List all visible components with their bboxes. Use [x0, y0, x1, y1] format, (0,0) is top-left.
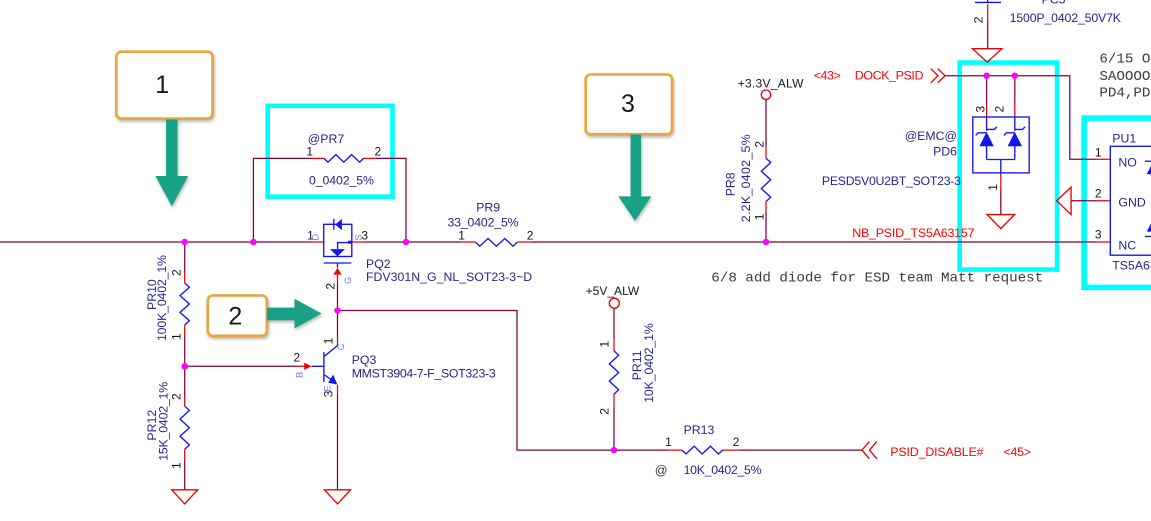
svg-text:@: @ — [655, 463, 668, 477]
junction node base/PR10/PR12 — [181, 363, 188, 370]
diode PD6 left lead — [986, 117, 988, 160]
svg-text:0_0402_5%: 0_0402_5% — [309, 174, 374, 188]
svg-text:1: 1 — [665, 435, 672, 449]
wire: PQ3 emitter to ground — [337, 393, 339, 489]
svg-text:2: 2 — [1095, 186, 1102, 200]
svg-text:DOCK_PSID: DOCK_PSID — [855, 68, 924, 82]
transistor PQ3 base lead — [312, 365, 324, 367]
wire: gate junction to PQ3 collector — [337, 311, 339, 339]
resistor PR7 — [324, 155, 364, 163]
junction node PD6 pin2 — [1012, 72, 1019, 79]
diode PD6 common lead — [987, 160, 1015, 174]
svg-text:2: 2 — [170, 269, 184, 276]
svg-text:1: 1 — [458, 228, 465, 242]
svg-text:1: 1 — [306, 145, 313, 159]
svg-text:1: 1 — [170, 462, 184, 469]
svg-text:1: 1 — [155, 71, 169, 99]
svg-text:3: 3 — [973, 106, 987, 113]
svg-text:PU1: PU1 — [1112, 131, 1136, 145]
svg-text:2: 2 — [597, 408, 611, 415]
svg-text:PESD5V0U2BT_SOT23-3: PESD5V0U2BT_SOT23-3 — [822, 174, 961, 188]
ground under PD6 — [987, 215, 1015, 229]
transistor PQ2 body — [324, 224, 352, 256]
wire: PQ2 gate down to junction — [337, 284, 339, 311]
junction node PR7 right leg — [403, 239, 410, 246]
transistor PQ2 body diode bar — [333, 219, 335, 230]
svg-text:2.2K_0402_5%: 2.2K_0402_5% — [739, 134, 753, 222]
resistor PR13 — [682, 446, 723, 454]
IC PU1 switch glyph bottom — [1145, 236, 1151, 238]
svg-text:1500P_0402_50V7K: 1500P_0402_50V7K — [1010, 11, 1122, 25]
svg-text:G: G — [343, 277, 354, 284]
transistor PQ2 gate arrow — [337, 263, 339, 268]
wire: PD6 pin1 to ground — [1000, 187, 1002, 214]
pin stubs PU1 — [1096, 159, 1110, 242]
svg-text:PD6: PD6 — [933, 145, 957, 159]
callout arrow 3 — [618, 135, 651, 221]
svg-text:NB_PSID_TS5A63157: NB_PSID_TS5A63157 — [852, 226, 974, 240]
wire: PR13 left — [614, 449, 669, 451]
wire: PC5 cap to ground — [987, 22, 989, 49]
svg-text:<43>: <43> — [814, 68, 841, 82]
wire: DOCK_PSID net to PU1 pin1 — [945, 76, 1096, 160]
wire: base wire to PQ3 — [185, 365, 299, 367]
svg-text:1: 1 — [752, 213, 766, 220]
svg-text:FDV301N_G_NL_SOT23-3~D: FDV301N_G_NL_SOT23-3~D — [366, 270, 532, 284]
svg-text:PQ3: PQ3 — [352, 353, 377, 367]
svg-text:100K_0402_1%: 100K_0402_1% — [155, 255, 169, 341]
wire: +3.3V to PR8 — [765, 99, 767, 147]
junction node PQ2 gate — [334, 307, 341, 314]
ground under PQ3 — [325, 490, 351, 504]
svg-text:2: 2 — [733, 435, 740, 449]
wire: PR13 right to PSID_DISABLE# port — [740, 449, 863, 451]
IC PU1 switch glyph top — [1145, 160, 1151, 162]
wire: PU1 pin2 from input arrow — [1071, 200, 1096, 202]
transistor PQ3 emitter arrow — [328, 375, 337, 385]
PU1 pin2 input arrow — [1057, 187, 1072, 214]
ground under PC5 — [973, 49, 1002, 63]
resistor PR8 — [761, 158, 770, 201]
wire: PR7 bypass loop — [253, 158, 406, 242]
svg-text:PD4,PD5: PD4,PD5 — [1099, 86, 1151, 102]
pin stubs PQ3 — [299, 339, 338, 394]
highlight box around PD6 — [960, 63, 1057, 270]
svg-text:E: E — [322, 385, 333, 391]
pin stubs PQ2 drain/source — [311, 241, 365, 243]
junction node PR11 bottom — [611, 447, 618, 454]
svg-text:SAOOOOO: SAOOOOO — [1099, 69, 1151, 85]
pin stub PQ2 gate — [337, 275, 339, 284]
svg-text:2: 2 — [228, 302, 242, 330]
callout box 3 — [586, 75, 672, 135]
svg-text:3: 3 — [1095, 227, 1102, 241]
power port +5V_ALW circle — [609, 298, 619, 308]
IC PU1 outline box — [1110, 146, 1151, 255]
svg-text:PSID_DISABLE#: PSID_DISABLE# — [890, 445, 983, 459]
svg-text:1: 1 — [986, 184, 1000, 191]
capacitor PC5 lead — [987, 0, 989, 2]
svg-text:MMST3904-7-F_SOT323-3: MMST3904-7-F_SOT323-3 — [352, 366, 496, 380]
wire: PR12 top — [184, 366, 186, 396]
svg-text:15K_0402_1%: 15K_0402_1% — [156, 382, 170, 461]
pin stubs PR10 — [184, 271, 186, 337]
transistor PQ3 collector lead — [325, 344, 338, 356]
svg-text:PR8: PR8 — [724, 172, 738, 196]
svg-text:2: 2 — [170, 393, 184, 400]
svg-text:B: B — [295, 372, 306, 378]
svg-text:2: 2 — [752, 141, 766, 148]
wire: main NB_PSID horizontal net — [0, 241, 1096, 243]
callout arrow 1 — [155, 120, 188, 207]
svg-text:NC: NC — [1118, 239, 1136, 253]
svg-text:1: 1 — [170, 333, 184, 340]
callout box 1 — [116, 52, 212, 119]
diode PD6 left zener bar — [976, 127, 997, 136]
svg-text:10K_0402_5%: 10K_0402_5% — [684, 463, 762, 477]
svg-text:6/15 ON: 6/15 ON — [1099, 52, 1151, 68]
pin stub PC5 — [987, 4, 989, 21]
svg-text:1: 1 — [321, 337, 335, 344]
pin stubs PR8 — [765, 148, 767, 212]
svg-text:TS5A63157: TS5A63157 — [1112, 258, 1151, 272]
wire: PD6 pin2 drop — [1014, 76, 1016, 103]
svg-text:1: 1 — [1095, 146, 1102, 160]
svg-text:S: S — [354, 234, 365, 240]
svg-text:6/8 add diode for ESD team Mat: 6/8 add diode for ESD team Matt request — [711, 271, 1043, 287]
svg-text:33_0402_5%: 33_0402_5% — [448, 215, 519, 229]
svg-text:@EMC@: @EMC@ — [905, 129, 957, 143]
svg-text:PR9: PR9 — [476, 201, 500, 215]
pin stubs PR11 — [613, 339, 615, 406]
svg-text:<45>: <45> — [1004, 445, 1032, 459]
pin stubs PR12 — [184, 396, 186, 459]
transistor PQ3 base bar — [323, 352, 325, 382]
transistor PQ2 gate bar — [324, 262, 352, 264]
callout arrow 2 — [267, 299, 322, 329]
junction node PR7 left leg — [250, 239, 257, 246]
highlight box around PU1 — [1084, 118, 1151, 287]
svg-text:+5V_ALW: +5V_ALW — [586, 284, 640, 298]
wire: +5V to PR11 — [613, 308, 615, 339]
svg-text:PR13: PR13 — [684, 423, 715, 437]
svg-text:+3.3V_ALW: +3.3V_ALW — [738, 77, 804, 91]
transistor PQ2 body diode triangle — [335, 219, 342, 230]
svg-text:GND: GND — [1118, 196, 1145, 210]
transistor PQ3 base input arrow — [304, 363, 311, 370]
svg-text:2: 2 — [971, 16, 985, 23]
transistor PQ2 internal step — [338, 243, 352, 249]
DOCK_PSID port chevron — [931, 69, 945, 83]
power port +3.3V_ALW circle — [761, 90, 770, 99]
svg-text:2: 2 — [375, 145, 382, 159]
diode PD6 outline box — [973, 117, 1029, 173]
svg-text:@PR7: @PR7 — [308, 132, 345, 146]
wire: PD6 pin3 drop — [986, 76, 988, 103]
diode PD6 right zener bar — [1004, 127, 1025, 136]
resistor PR11 — [609, 351, 618, 394]
transistor PQ2 internal arrow — [330, 249, 345, 256]
diode PD6 right lead — [1014, 117, 1016, 160]
pin stubs PR13 — [668, 449, 739, 451]
svg-text:1: 1 — [597, 341, 611, 348]
pin stubs PR9 — [461, 241, 531, 243]
svg-text:2: 2 — [294, 351, 301, 365]
resistor PR9 — [476, 239, 518, 247]
resistor PR10 — [180, 283, 189, 325]
svg-text:2: 2 — [527, 228, 534, 242]
ground under PR12 — [172, 490, 198, 504]
wire: PR12 bottom to ground — [184, 459, 186, 489]
wire: PR8 bottom to main net — [765, 212, 767, 242]
svg-text:2: 2 — [323, 283, 337, 290]
svg-text:2: 2 — [992, 106, 1006, 113]
svg-text:NO: NO — [1118, 156, 1136, 170]
svg-text:D: D — [311, 234, 322, 241]
svg-text:PC5: PC5 — [1042, 0, 1066, 7]
capacitor PC5 bottom plate — [975, 1, 1001, 3]
diode PD6 left triangle — [979, 132, 993, 146]
pin stubs PD6 — [987, 103, 1015, 187]
pin stubs PR7 — [311, 157, 375, 159]
highlight box around PR7 — [268, 106, 393, 197]
junction node on main net at PR10 — [181, 239, 188, 246]
wire: PR10 top branch — [184, 242, 186, 271]
PSID_DISABLE# port chevron — [862, 442, 877, 459]
svg-text:10K_0402_1%: 10K_0402_1% — [642, 323, 656, 403]
wire: PR10 bottom to mid junction — [184, 337, 186, 366]
wire: output net to PR11/PR13 row — [338, 311, 614, 451]
diode PD6 right triangle — [1008, 132, 1022, 146]
svg-text:3: 3 — [621, 90, 635, 118]
svg-text:C: C — [336, 343, 347, 350]
transistor PQ3 emitter lead — [325, 375, 337, 383]
junction node PD6 pin3 — [983, 72, 990, 79]
resistor PR12 — [180, 406, 189, 449]
wire: PR11 bottom to junction — [613, 406, 615, 450]
junction node PR8 bottom — [763, 239, 770, 246]
callout box 2 — [208, 296, 267, 336]
